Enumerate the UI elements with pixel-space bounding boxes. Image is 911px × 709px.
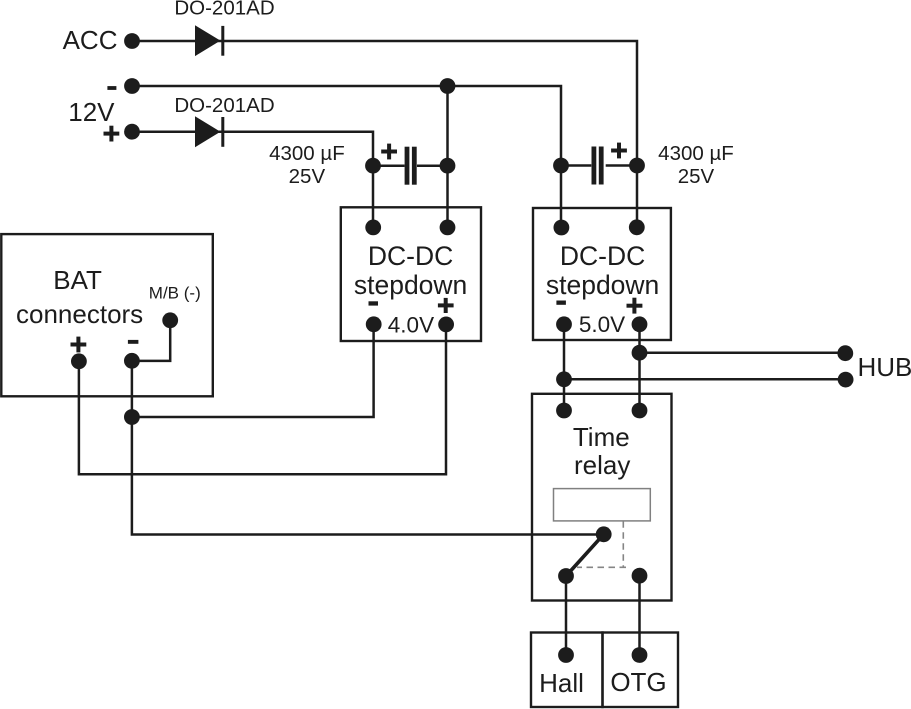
node HUB tap plus: [632, 345, 648, 361]
wire 12V minus horizontal: [132, 86, 561, 166]
label U2 minus sign: [556, 301, 566, 305]
wire C1 left lead: [373, 164, 405, 167]
node BAT minus: [124, 353, 140, 369]
node relay common: [596, 526, 612, 542]
node 12V minus: [124, 78, 140, 94]
svg-text:4.0V: 4.0V: [388, 312, 434, 337]
svg-text:DC-DC: DC-DC: [368, 241, 453, 271]
capacitor C2 plates: [592, 147, 604, 185]
node C1 right: [440, 158, 456, 174]
node C2 left: [553, 158, 569, 174]
svg-text:4300 µF: 4300 µF: [269, 142, 345, 165]
node HUB tap minus: [556, 371, 572, 387]
svg-text:stepdown: stepdown: [546, 270, 659, 300]
node U1 pin out plus: [438, 317, 454, 333]
wire U1 minus out to BAT junction: [132, 323, 374, 417]
box OTG: [603, 633, 679, 708]
node ACC: [124, 33, 140, 49]
relay coil rectangle: [554, 489, 651, 521]
node C1 left: [365, 158, 381, 174]
node relay pin in left: [556, 403, 572, 419]
svg-text:5.0V: 5.0V: [579, 312, 625, 337]
svg-text:25V: 25V: [678, 165, 715, 188]
node relay out right: [632, 568, 648, 584]
diode D1 DO-201AD: [195, 25, 224, 56]
capacitor C2 plus sign: [611, 143, 627, 159]
node M/B: [162, 312, 178, 328]
wire junction drop to C1 right: [446, 86, 449, 166]
label plus 12V: [104, 126, 120, 142]
node Hall pin: [558, 647, 574, 663]
svg-text:Hall: Hall: [539, 668, 584, 698]
label U1 minus sign: [369, 301, 379, 305]
box U1 DC-DC stepdown 4.0V: [341, 207, 481, 341]
relay switch arm: [566, 534, 604, 576]
wire ACC horizontal: [132, 41, 637, 166]
wire U2 plus down to relay pin: [638, 324, 641, 411]
label U1 plus sign: [438, 298, 454, 313]
box U2 DC-DC stepdown 5.0V: [533, 208, 671, 340]
node U1 pin in left: [365, 220, 381, 236]
capacitor C1 plates: [405, 147, 417, 185]
node U1 pin out minus: [366, 316, 382, 332]
svg-text:OTG: OTG: [610, 667, 666, 697]
node relay pin in right: [632, 403, 648, 419]
wire C1 to U1 pins: [372, 166, 375, 228]
node junction minus rail: [440, 78, 456, 94]
wire U1 plus out to BAT plus: [79, 324, 446, 475]
wire BAT minus down to relay feed: [132, 361, 604, 535]
label BAT minus sign: [128, 340, 138, 344]
wire C2 left lead: [561, 164, 591, 167]
diode D2 DO-201AD: [195, 116, 224, 147]
node 12V plus: [124, 124, 140, 140]
box Hall: [531, 633, 603, 708]
svg-text:25V: 25V: [289, 165, 326, 188]
node C2 right: [629, 158, 645, 174]
svg-text:ACC: ACC: [63, 25, 118, 55]
svg-text:DO-201AD: DO-201AD: [174, 0, 274, 20]
svg-text:M/B (-): M/B (-): [149, 283, 201, 302]
wire HUB bottom: [564, 378, 845, 381]
node BAT minus junction: [124, 409, 140, 425]
wire M/B jumper: [132, 320, 170, 361]
svg-text:BAT: BAT: [53, 265, 102, 295]
node U1 pin in right: [440, 220, 456, 236]
svg-text:HUB: HUB: [858, 352, 911, 382]
wire U2 minus down to relay pin: [563, 324, 566, 411]
svg-text:DC-DC: DC-DC: [560, 241, 645, 271]
svg-text:connectors: connectors: [16, 299, 143, 329]
node BAT plus: [71, 353, 87, 369]
svg-text:Time: Time: [573, 422, 630, 452]
wire C1 right lead: [417, 164, 448, 167]
label U2 plus sign: [627, 298, 643, 314]
svg-text:DO-201AD: DO-201AD: [174, 94, 274, 117]
box BAT connectors: [1, 234, 213, 396]
node HUB terminal top: [837, 345, 853, 361]
svg-text:4300 µF: 4300 µF: [658, 142, 734, 165]
label minus 12V: [107, 86, 116, 90]
node U2 pin in left: [554, 220, 570, 236]
svg-text:12V: 12V: [68, 97, 115, 127]
wire 12V plus horizontal: [132, 132, 373, 166]
wire relay to Hall: [565, 576, 568, 655]
capacitor C1 plus sign: [381, 144, 397, 160]
node U2 pin out plus: [632, 316, 648, 332]
wire relay to OTG: [638, 576, 641, 655]
svg-text:relay: relay: [574, 450, 630, 480]
node relay out left: [558, 568, 574, 584]
wire C2 right lead: [606, 164, 637, 167]
node U2 pin in right: [629, 219, 645, 235]
node U2 pin out minus: [556, 316, 572, 332]
node OTG pin: [632, 647, 648, 663]
node HUB terminal bottom: [838, 372, 854, 388]
label BAT plus sign: [71, 337, 87, 353]
relay dashed linkage: [577, 521, 626, 567]
box Time relay K1: [532, 394, 672, 601]
wire C2 to U2 pins: [560, 166, 563, 228]
svg-text:stepdown: stepdown: [354, 270, 467, 300]
wire HUB top: [640, 351, 846, 354]
